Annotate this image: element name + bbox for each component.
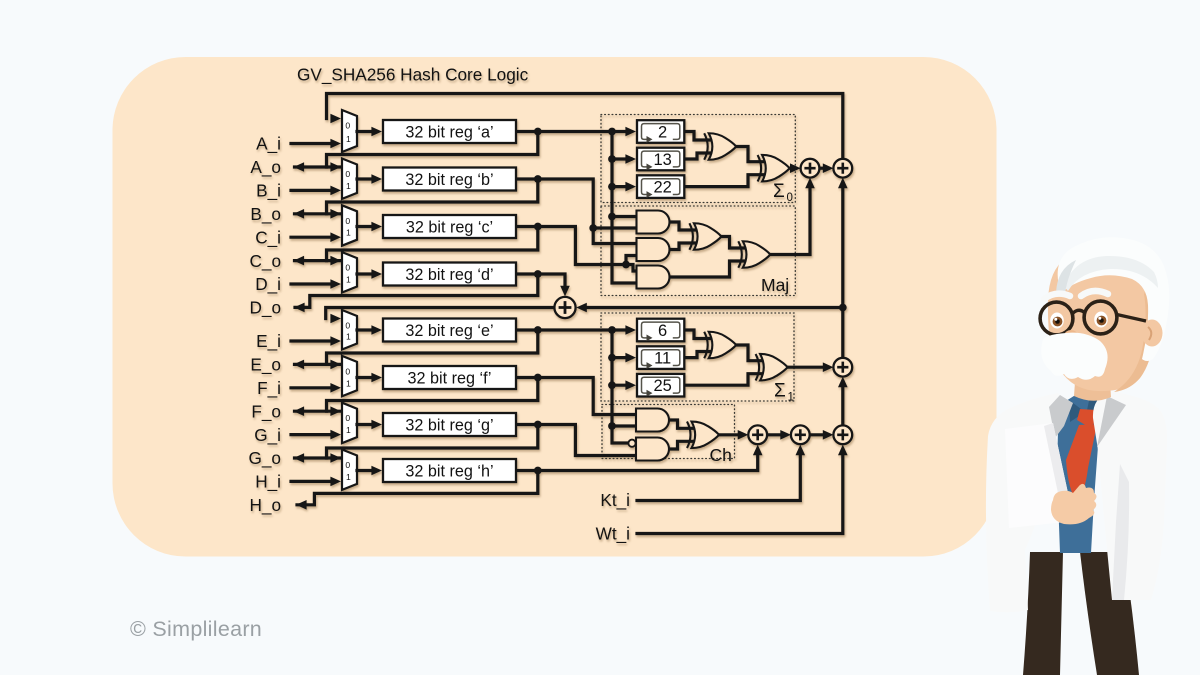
- wire rot6 to xor5: [684, 330, 710, 339]
- wire A_i input to mux a: [291, 139, 341, 149]
- professor coat left panel: [986, 393, 1062, 612]
- adder ADD3 (sigma1 adder): [833, 358, 852, 377]
- professor hair swoosh shading: [1064, 256, 1158, 291]
- register REG_H (32 bit reg 'h'): [383, 459, 516, 482]
- wire reg c to mux d / C_o: [294, 227, 538, 266]
- title text: [297, 65, 529, 85]
- rotate-right box ROT25 (>>25): [637, 374, 684, 397]
- label Ch: [710, 445, 732, 465]
- professor collar left: [1069, 400, 1085, 422]
- professor hair: [1058, 237, 1170, 361]
- professor collar right: [1086, 396, 1113, 415]
- register REG_C (32 bit reg 'c'): [383, 215, 516, 238]
- Maj dashed block: [601, 206, 795, 296]
- wire e bus down to Ch: [608, 330, 640, 443]
- professor neck: [1074, 368, 1111, 401]
- wire reg e to mux f / E_o: [294, 330, 538, 369]
- port label A_o: [250, 157, 281, 177]
- port label H_o: [249, 495, 281, 515]
- wire reg b to mux c / B_o: [294, 179, 538, 219]
- professor eye left: [1050, 313, 1064, 329]
- port label G_o: [249, 448, 282, 468]
- wire reg f output to AND4: [516, 374, 641, 415]
- rotate-right box ROT13 (>>13): [637, 148, 684, 171]
- and gate A1 (a&amp;b): [637, 211, 670, 234]
- wire reg g output to AND5: [516, 421, 641, 456]
- professor coat right panel: [1093, 391, 1167, 600]
- wire xor7 to adder6: [719, 430, 748, 440]
- wire AND2 to xor3: [670, 243, 696, 250]
- label Wt_i: [596, 524, 630, 544]
- and gate A5 (~e&amp;g, inverted input bubble): [628, 438, 669, 461]
- wire Maj output to adder1: [770, 178, 815, 255]
- sigma1 dashed block: [601, 313, 794, 401]
- professor shirt: [1057, 389, 1112, 553]
- port label C_i: [255, 227, 281, 247]
- label sigma1: [774, 381, 794, 404]
- mux M_f (2:1 select for reg f): [342, 356, 382, 396]
- xor gate X5 (rot6^rot11): [704, 332, 736, 359]
- professor nose: [1065, 330, 1078, 340]
- adder ADD5 (+Kt): [791, 425, 810, 444]
- professor glasses temple: [1117, 315, 1146, 322]
- professor eyebrow right: [1081, 291, 1108, 296]
- register REG_D (32 bit reg 'd'): [383, 263, 516, 286]
- professor neck shadow: [1077, 368, 1108, 387]
- professor lapel left: [1049, 395, 1073, 438]
- wire reg f to mux g / F_o: [294, 378, 538, 417]
- wire reg c output to AND2/AND3: [516, 223, 641, 271]
- port label E_o: [250, 355, 281, 375]
- wire rot22 to xor2: [684, 175, 763, 187]
- wire reg h output to adder6: [516, 445, 763, 475]
- professor mustache: [1041, 333, 1107, 380]
- wire reg b output to AND1/AND2: [516, 175, 641, 243]
- professor paper sheet: [1005, 423, 1074, 528]
- xor gate X7 (Ch result): [687, 422, 719, 449]
- wire rot25 to xor6: [684, 374, 761, 386]
- wire adder3 up through T1 to adder2: [838, 178, 848, 358]
- wire adder1 to adder2: [819, 163, 833, 173]
- professor eye right: [1094, 312, 1108, 328]
- label sigma0: [773, 181, 793, 204]
- professor glasses left lens: [1040, 302, 1073, 335]
- wire reg d output to adder7: [516, 270, 570, 296]
- wire F_i input to mux f: [291, 383, 341, 393]
- register REG_A (32 bit reg 'a'): [383, 120, 516, 143]
- wire reg g to mux h / G_o: [294, 425, 538, 463]
- wire reg a to mux b / A_o: [294, 132, 538, 172]
- mux M_e (2:1 select for reg e): [342, 310, 382, 350]
- register REG_E (32 bit reg 'e'): [383, 319, 516, 342]
- wire xor5 to xor6: [736, 345, 761, 361]
- professor ear: [1142, 320, 1163, 347]
- wire G_i input to mux g: [291, 430, 341, 440]
- wire T1 line to adder7: [576, 303, 846, 313]
- register REG_F (32 bit reg 'f'): [383, 366, 516, 389]
- sigma0 dashed block: [601, 115, 795, 203]
- port label A_i: [256, 134, 281, 154]
- port label E_i: [256, 331, 281, 351]
- and gate A3 (c&amp;a): [637, 266, 670, 289]
- wire xor3 to xor4: [721, 237, 744, 249]
- professor lapel right: [1097, 396, 1126, 447]
- wire adder4 to adder3: [838, 377, 848, 426]
- wire rot11 to xor5: [684, 352, 710, 358]
- professor right cheek shading: [1114, 282, 1155, 392]
- professor face: [1048, 250, 1155, 391]
- mux M_a (2:1 select for reg a): [342, 110, 382, 152]
- wire D_i input to mux d: [291, 279, 341, 289]
- wire adder5 to adder4: [810, 430, 834, 440]
- xor gate X4 (Maj result): [738, 241, 770, 268]
- rotate-right box ROT22 (>>22): [637, 175, 684, 198]
- adder ADD7 (d + T1, new e): [554, 297, 575, 318]
- adder ADD1 (sigma0 + Maj): [801, 159, 820, 178]
- and gate A4 (e&amp;f): [636, 409, 669, 432]
- wire rot13 to xor1: [684, 153, 710, 159]
- wire AND1 to xor3: [670, 222, 696, 230]
- port label F_o: [251, 401, 281, 421]
- wire adder6 to adder5: [767, 430, 791, 440]
- panel background (peach rounded rect): [113, 57, 997, 557]
- wire adder7 output to mux e: [326, 308, 555, 324]
- port label C_o: [249, 251, 281, 271]
- adder ADD6 (Ch+h): [748, 425, 767, 444]
- mux M_b (2:1 select for reg b): [342, 159, 382, 199]
- label Maj: [761, 275, 789, 295]
- wire AND3 to xor4: [670, 261, 745, 277]
- xor gate X1 (rot2^rot13): [704, 133, 736, 160]
- rotate-right box ROT2 (>>2): [637, 120, 684, 143]
- and gate A2 (b&amp;c): [637, 238, 670, 261]
- port label D_i: [255, 274, 281, 294]
- label Kt_i: [600, 490, 630, 510]
- professor glasses right lens: [1084, 301, 1117, 334]
- port label B_o: [250, 204, 281, 224]
- wire Kt_i to adder5: [637, 445, 805, 501]
- wire reg h to H_o: [296, 471, 538, 510]
- xor gate X2 (sigma0 result): [758, 155, 790, 182]
- professor glasses bridge: [1073, 310, 1085, 313]
- wire H_i input to mux h: [291, 477, 341, 487]
- port label G_i: [254, 425, 281, 445]
- professor left leg: [1023, 552, 1063, 675]
- wire xor2 to adder1: [790, 163, 801, 173]
- professor coat right shading: [1112, 464, 1129, 600]
- professor right leg: [1080, 552, 1139, 675]
- rotate-right box ROT6 (>>6): [637, 319, 684, 342]
- wire xor1 to xor2: [736, 147, 763, 162]
- port label F_i: [257, 378, 281, 398]
- wire reg e output to rot6: [516, 325, 636, 335]
- wire Wt_i to adder4: [637, 445, 848, 534]
- wire a_new top feedback (final adder to mux a): [327, 94, 843, 160]
- register REG_B (32 bit reg 'b'): [383, 168, 516, 191]
- professor hair gray fringe: [1056, 260, 1076, 297]
- mux M_c (2:1 select for reg c): [342, 205, 382, 245]
- port label H_i: [255, 472, 281, 492]
- port label D_o: [249, 298, 281, 318]
- Ch dashed block: [602, 405, 735, 459]
- mux M_d (2:1 select for reg d): [342, 252, 382, 292]
- port label B_i: [256, 181, 281, 201]
- copyright text: [130, 617, 262, 642]
- wire xor6 to adder3: [788, 362, 834, 372]
- adder ADD4 (+Wt): [833, 425, 852, 444]
- wire a bus down to AND3: [608, 132, 640, 284]
- rotate-right box ROT11 (>>11): [637, 346, 684, 369]
- professor paper edge shading: [1044, 423, 1074, 522]
- adder ADD2 (T1+T2, new a): [833, 159, 852, 178]
- wire rot2 to xor1: [684, 132, 710, 141]
- wire C_i input to mux c: [291, 232, 341, 242]
- mux M_h (2:1 select for reg h): [342, 450, 382, 490]
- professor eyebrow left: [1044, 294, 1070, 299]
- mux M_g (2:1 select for reg g): [342, 403, 382, 443]
- wire reg d to D_o: [294, 274, 538, 312]
- xor gate X6 (sigma1 result): [756, 354, 788, 381]
- wire AND5 to xor7: [669, 441, 693, 449]
- register REG_G (32 bit reg 'g'): [383, 413, 516, 436]
- wire B_i input to mux b: [291, 186, 341, 196]
- wire E_i input to mux e: [291, 336, 341, 346]
- professor hand: [1051, 484, 1097, 524]
- xor gate X3 (Maj first): [689, 223, 721, 250]
- wire reg a output to rot2: [516, 127, 636, 137]
- professor tie: [1066, 409, 1099, 502]
- wire AND4 to xor7: [669, 420, 693, 428]
